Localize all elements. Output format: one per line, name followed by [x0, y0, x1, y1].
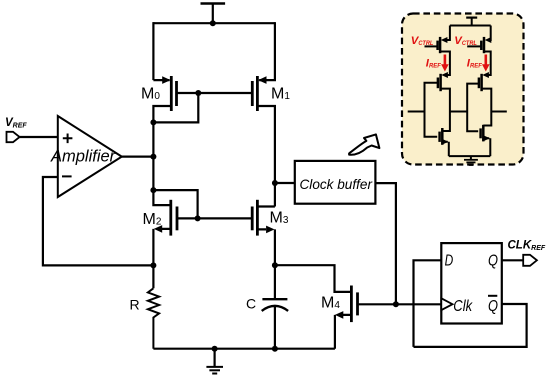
- svg-text:Clock buffer: Clock buffer: [300, 176, 374, 192]
- svg-text:Clk: Clk: [453, 298, 473, 315]
- svg-text:D: D: [445, 252, 454, 269]
- svg-text:R: R: [130, 296, 140, 312]
- svg-text:Q: Q: [488, 252, 498, 269]
- svg-text:C: C: [246, 296, 256, 312]
- svg-text:Amplifier: Amplifier: [50, 147, 117, 165]
- svg-text:Q: Q: [488, 298, 498, 315]
